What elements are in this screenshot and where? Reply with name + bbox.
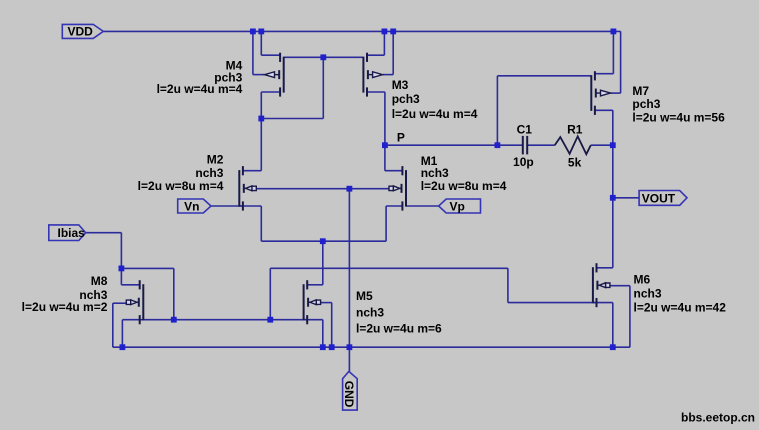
M2 bulk bar [243, 184, 245, 193]
junction on VDD rail at M4 bulk [250, 29, 256, 35]
M8 drain contact [139, 280, 141, 289]
wire Ibias pin stub [86, 232, 122, 234]
svg-text:Vn: Vn [184, 200, 199, 214]
junction GND rail at M5 bulk [329, 344, 335, 350]
wire M1 drain lead [385, 170, 402, 172]
wire M7 gate riser [496, 76, 498, 145]
junction on VDD rail at M7 source [611, 29, 617, 35]
wire M2 drain lead [243, 170, 261, 172]
M1 channel [405, 170, 407, 207]
junction bulk net at GND riser [347, 186, 353, 192]
M1 bulk arrow [389, 186, 393, 190]
svg-text:pch3: pch3 [392, 92, 420, 106]
M6 gate contact [596, 298, 598, 307]
M8 gate contact [139, 315, 141, 324]
wire M3 source lead [367, 54, 384, 56]
svg-text:nch3: nch3 [634, 287, 662, 301]
wire M4 drain lead [261, 91, 280, 93]
M5 gate contact [306, 315, 308, 324]
M5 bulk arrow [316, 300, 320, 304]
wire M2 source lead [239, 205, 261, 207]
wire M3 source riser to VDD [383, 31, 385, 55]
M8 bulk bar [138, 298, 140, 307]
wire M6 source lead [593, 302, 613, 304]
junction GND rail at M8 source [120, 344, 126, 350]
svg-text:Vp: Vp [450, 200, 465, 214]
M2 drain contact [242, 166, 244, 175]
svg-text:bbs.eetop.cn: bbs.eetop.cn [681, 411, 755, 425]
M3 drain contact [366, 87, 368, 96]
wire M7 source riser to VDD [612, 31, 614, 73]
svg-text:nch3: nch3 [421, 166, 449, 180]
wire M8 drain riser [120, 268, 122, 284]
port Ibias [49, 225, 86, 241]
wire M6 gate riser [507, 268, 509, 302]
svg-text:Ibias: Ibias [58, 226, 86, 240]
port Vp [439, 199, 481, 213]
port VOUT [639, 191, 687, 206]
M3 bulk arrow [373, 72, 383, 78]
junction P at M7 gate riser [495, 142, 501, 148]
wire M8 bulk riser [112, 303, 114, 347]
junction GND rail at M6 source [610, 344, 616, 350]
wire M6 bulk lead [606, 285, 630, 287]
wire M4 drain to M2 drain vertical [260, 92, 262, 171]
wire M5 drain lead [307, 284, 323, 286]
wire M8 bulk lead [113, 302, 127, 304]
resistor R1 zigzag [555, 136, 591, 154]
capacitor C1 right plate [526, 136, 528, 155]
wire M1 source riser [385, 206, 387, 241]
wire M3 bulk riser to VDD [392, 31, 394, 74]
wire node P segment 1 [385, 144, 523, 146]
junction gate bias at Ibias tap [171, 317, 177, 323]
wire node A horizontal [261, 118, 323, 120]
svg-text:M2: M2 [207, 153, 224, 167]
svg-text:P: P [397, 130, 405, 144]
M7 bulk arrow [601, 90, 611, 96]
wire M7 drain lead [595, 109, 613, 111]
wire M7 bulk lead [610, 92, 620, 94]
M4 channel [283, 57, 285, 93]
svg-text:l=2u w=4u m=4: l=2u w=4u m=4 [392, 107, 478, 121]
wire M5 source lead [304, 319, 323, 321]
M7 bulk bar [595, 89, 597, 98]
M5 drain contact [306, 280, 308, 289]
junction gate bias at M6 tap [267, 317, 273, 323]
svg-text:M3: M3 [392, 78, 409, 92]
M1 gate contact [401, 201, 403, 210]
M5 bulk bar [307, 298, 309, 307]
junction mirror gate tap [320, 54, 326, 60]
M4 gate contact [279, 53, 281, 62]
M7 channel [590, 75, 592, 111]
wire Ibias riser [120, 233, 122, 269]
junction Ibias node [119, 266, 125, 272]
wire mirror gate tap riser [322, 57, 324, 118]
junction node A [258, 116, 264, 122]
svg-text:GND: GND [342, 381, 356, 408]
svg-text:M6: M6 [634, 273, 651, 287]
wire M6 gate horizontal high [270, 267, 508, 269]
svg-text:M5: M5 [356, 289, 373, 303]
junction tail at M5 drain [320, 238, 326, 244]
capacitor C1 left plate [522, 136, 524, 155]
svg-text:l=2u w=4u m=4: l=2u w=4u m=4 [157, 82, 243, 96]
wire Vn to M2 gate [211, 205, 243, 207]
svg-text:nch3: nch3 [356, 306, 384, 320]
junction on VDD rail at M4 source [258, 29, 264, 35]
wire M3 drain to M1 drain vertical [384, 92, 386, 171]
wire M4 source lead [261, 54, 280, 56]
M3 bulk bar [367, 70, 369, 79]
junction VOUT [610, 195, 616, 201]
svg-text:M8: M8 [91, 274, 108, 288]
wire M7 source lead [595, 73, 614, 75]
svg-text:l=2u w=4u m=6: l=2u w=4u m=6 [356, 321, 442, 335]
svg-text:l=2u w=4u m=56: l=2u w=4u m=56 [632, 111, 725, 125]
wire gate bias net M8-M5 [122, 319, 307, 321]
M3 channel [362, 57, 364, 93]
wire VOUT stub [613, 197, 639, 199]
svg-text:nch3: nch3 [195, 166, 223, 180]
wire Ibias tap riser [173, 268, 175, 319]
wire M7 gate horizontal [497, 75, 591, 77]
M1 drain contact [401, 166, 403, 175]
wire M4 source riser to VDD [260, 31, 262, 55]
M2 channel [238, 170, 240, 207]
wire M7 bulk riser to VDD [620, 31, 622, 93]
wire Vp to M1 gate [406, 205, 439, 207]
wire M4 bulk lead [253, 74, 265, 76]
wire node P segment 2 [527, 144, 555, 146]
M6 bulk arrow [606, 283, 610, 287]
wire tail rail [261, 240, 386, 242]
M6 drain contact [596, 263, 598, 272]
wire M6 bulk riser [629, 286, 631, 348]
junction node P [382, 142, 388, 148]
M4 bulk arrow [265, 72, 275, 78]
M2 gate contact [242, 201, 244, 210]
port Vn [178, 199, 211, 213]
svg-text:R1: R1 [567, 122, 583, 136]
wire mirror gate net M4-M3 [284, 56, 364, 58]
svg-text:M7: M7 [632, 84, 649, 98]
M3 gate contact [366, 53, 368, 62]
wire M4 bulk riser to VDD [252, 31, 254, 74]
M6 bulk bar [596, 281, 598, 290]
wire output vertical M7-M6 [612, 110, 614, 267]
wire GND rail [113, 346, 630, 348]
svg-text:10p: 10p [513, 155, 534, 169]
wire M2 source riser [260, 206, 262, 241]
svg-text:VDD: VDD [68, 25, 94, 39]
M1 bulk bar [401, 184, 403, 193]
wire M5 source riser [322, 320, 324, 348]
M5 channel [303, 284, 305, 320]
M2 bulk arrow [252, 186, 256, 190]
wire node P segment 3 [591, 144, 613, 146]
wire bulk net M2-M1 [256, 188, 389, 190]
junction on VDD rail at M3 bulk [390, 29, 396, 35]
wire M3 drain lead [367, 91, 385, 93]
wire M3 bulk lead [383, 74, 393, 76]
port GND [343, 371, 358, 410]
wire M8 source drop [121, 320, 123, 348]
svg-text:C1: C1 [517, 122, 533, 136]
wire M6 source riser [612, 303, 614, 348]
wire M5 bulk lead [320, 302, 331, 304]
M8 channel [142, 284, 144, 320]
M6 channel [592, 267, 594, 303]
svg-text:pch3: pch3 [632, 97, 660, 111]
wire M6 drain lead [597, 267, 613, 269]
M4 drain contact [279, 87, 281, 96]
wire Ibias node horizontal [121, 267, 173, 269]
svg-text:5k: 5k [568, 155, 582, 169]
junction GND rail at GND pin [347, 344, 353, 350]
wire M5 bulk riser [331, 303, 333, 348]
svg-text:l=2u w=8u m=4: l=2u w=8u m=4 [138, 179, 224, 193]
junction on VDD rail at M3 source [382, 29, 388, 35]
wire VDD rail [103, 30, 620, 32]
junction output at P rail [610, 142, 616, 148]
M7 gate contact [594, 71, 596, 80]
svg-text:l=2u w=4u m=2: l=2u w=4u m=2 [22, 300, 108, 314]
M4 bulk bar [278, 70, 280, 79]
wire M6 gate horizontal low [508, 302, 597, 304]
svg-text:l=2u w=8u m=4: l=2u w=8u m=4 [421, 179, 507, 193]
svg-text:l=2u w=4u m=42: l=2u w=4u m=42 [634, 301, 727, 315]
M8 bulk arrow [126, 300, 130, 304]
junction GND rail at M5 source [320, 344, 326, 350]
wire GND riser [348, 189, 350, 372]
port VDD [62, 24, 103, 38]
wire M6 gate tap riser [269, 268, 271, 319]
wire M5 drain riser [322, 241, 324, 285]
wire M1 source lead [386, 205, 402, 207]
svg-text:VOUT: VOUT [642, 191, 676, 205]
M7 drain contact [594, 106, 596, 115]
wire M8 drain lead [121, 284, 139, 286]
